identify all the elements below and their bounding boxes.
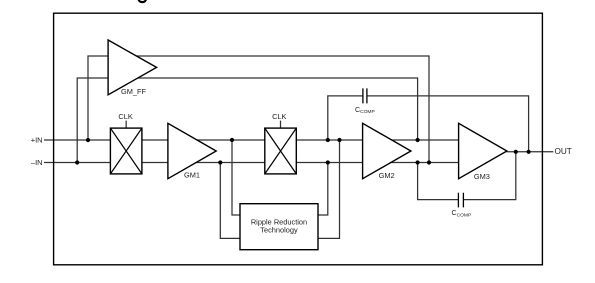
chopper CLK 2 [265,128,297,174]
border frame of block [54,13,543,265]
node GM2 in bottom / ripple junction [326,160,330,164]
op-amp GM3 [459,123,507,178]
wire -IN tap up to GM_FF bottom input, across, down to GM3 upper input [77,78,417,163]
capacitor CCOMP bottom plates [458,193,463,208]
svg-text:+IN: +IN [31,136,43,145]
wire -IN rail [44,162,480,164]
node GM2 in top / CCOMP junction [326,138,330,142]
svg-text:GM1: GM1 [184,170,200,179]
wire ripple box right upper to GM2 lower input node [318,163,328,216]
node GM3 in bottom / GM_FF junction [427,160,431,164]
chopper CLK 1 [110,128,141,174]
node GM3 in top / GM_FF junction [416,138,420,142]
svg-text:OUT: OUT [555,147,572,156]
op-amp GM_FF [108,40,157,95]
cropped title glyph fragment [139,0,146,2]
svg-text:Technology: Technology [260,226,298,235]
wire CLK stub chopper 1 [125,121,127,129]
Ripple Reduction Technology box [240,204,318,250]
node GM1 out top junction [230,138,234,142]
wire top CCOMP left segment from GM2 upper input node [328,96,363,140]
wire bottom CCOMP left segment from GM3 lower input node [418,163,459,200]
node -IN/GM_FF junction [75,160,79,164]
node GM3 in bottom / CCOMP junction [416,160,420,164]
wire bottom CCOMP right segment up to OUT node [463,152,515,200]
wire GM1 bottom output down to ripple box left lower [220,163,240,239]
node OUT / top CCOMP junction [527,150,531,154]
node GM2 in top / ripple junction [337,138,341,142]
svg-text:GM3: GM3 [474,172,490,181]
svg-text:GM2: GM2 [379,171,395,180]
svg-text:CCOMP: CCOMP [355,107,375,115]
node GM1 out bottom junction [218,160,222,164]
node +IN/GM_FF junction [86,138,90,142]
capacitor CCOMP top plates [363,88,367,103]
wire GM1 top output down to ripple box left upper [232,140,240,215]
op-amp GM1 [168,123,216,178]
svg-text:CLK: CLK [118,112,132,121]
svg-text:–IN: –IN [31,158,43,167]
wire OUT line [507,151,554,153]
wire ripple box right lower to GM2 upper input node [318,140,340,238]
svg-text:GM_FF: GM_FF [121,87,147,96]
op-amp GM2 [363,123,411,178]
svg-text:CLK: CLK [272,112,286,121]
wire CLK stub chopper 2 [280,121,282,129]
svg-text:CCOMP: CCOMP [452,210,472,218]
wire top CCOMP right segment down to OUT node [367,96,529,152]
wire +IN rail [44,139,480,141]
node OUT / bottom CCOMP junction [514,150,518,154]
wire +IN tap up to GM_FF top input, across, down to GM3 lower input [88,56,429,163]
